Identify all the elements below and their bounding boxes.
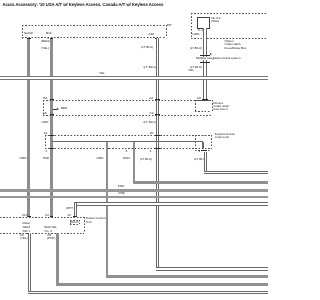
wire color YEL bottom [20, 237, 28, 240]
power box internal text line1 [45, 226, 58, 229]
pin label C9 [197, 97, 201, 100]
relay sub-box inside power box [70, 220, 80, 221]
junction tick on W4 lower [200, 62, 210, 63]
pin tick W2 on D1 [50, 99, 53, 100]
wire W7 bottom elbow horizontal [56, 283, 268, 286]
wire W6 elbow horizontal [133, 181, 269, 184]
wire color LT BLU (left of W3) [140, 158, 152, 161]
pin tick W3 on D1 [155, 99, 159, 100]
pin 4 number [47, 37, 49, 40]
pin tick W2 on D3 [50, 135, 53, 136]
power box internal label under W1 line1 [23, 222, 31, 225]
pin label 20 [150, 132, 153, 135]
wire color ORN (left of W1) [20, 157, 27, 160]
pin label A2 [149, 97, 153, 100]
pin label C6 [20, 234, 24, 237]
ignition switch box (dashed, top-left) [22, 25, 166, 26]
wire color ORN (left of W6) [123, 157, 130, 160]
pin 1 tick under ignition box [27, 38, 31, 39]
pin tick L4 on power box top [73, 216, 77, 217]
pin tick W2 on D2 [50, 114, 53, 115]
wire W6 (x=133.9) [133, 142, 136, 183]
pin tick for LT BLU wire under ignition box [155, 38, 159, 39]
fuse wire color GRN [193, 33, 200, 36]
ignition switch box pin label A29 [149, 33, 155, 36]
pin 1 number [22, 37, 24, 40]
power box internal label under W1 line3 [23, 230, 31, 233]
fuse label line1 [211, 17, 220, 20]
under-dash box text block line1 [225, 40, 234, 43]
power box internal label under W1 line2 [23, 226, 31, 229]
fuse sub-box text line1 [213, 102, 223, 105]
pin tick W2 on power box top [50, 216, 54, 217]
WHT label [66, 207, 73, 210]
wire W1b (below power box, dark hollow) [28, 233, 31, 293]
wire W4b (below relay box, elbow right) [204, 152, 208, 175]
relay sub-box label [70, 221, 79, 224]
wire L4 WHT (hollow dark) horizontal [74, 202, 268, 206]
under-dash box text block line2 [225, 43, 241, 46]
pin label 4 [199, 150, 201, 153]
pin label B4 [43, 97, 47, 100]
power control unit box (dashed) [0, 217, 84, 218]
wire W4a (hollow, from fuse down) [203, 28, 207, 101]
fuse label line2 [211, 20, 219, 23]
pin tick W1 on power box bottom [27, 233, 31, 234]
pin tick W3 on D3 [155, 135, 159, 136]
pin tick W6 on D4 [132, 148, 135, 149]
pin tick W1 on power box top [27, 216, 31, 217]
power box internal text line2 [45, 230, 52, 233]
YEL bus wire (horizontal, full width) [0, 76, 268, 79]
pin label C8 [47, 234, 51, 237]
pin label 13 [67, 214, 70, 217]
pin 4 tick under ignition box [50, 38, 54, 39]
power control unit text line2 [86, 221, 92, 224]
arrowhead on junction tick [210, 53, 212, 55]
wire color PNK (left of W2) [43, 157, 49, 160]
under-hood fuse/relay box (dashed, top-right) [191, 13, 268, 14]
pin label W3 D2 [150, 112, 154, 115]
wire W4b elbow horizontal [204, 171, 269, 175]
PNK label 2 [119, 192, 125, 195]
label (LT BLU) upper right [190, 47, 202, 50]
internal bus line in keyless box [52, 141, 204, 142]
fuse sub-box text line2 [213, 105, 229, 108]
wire W1b bottom elbow horizontal [28, 291, 268, 294]
keyless access control unit box (dashed rect D3/D4) [45, 135, 211, 136]
keyless box side text line1 [215, 133, 235, 136]
wire W3 bottom elbow horizontal [156, 267, 268, 271]
YEL label left [99, 72, 105, 75]
pin tick W2 on D4 [50, 148, 53, 149]
pin tick under relay sub-box [201, 150, 207, 151]
wire W2 (x=52) [50, 39, 53, 217]
title [3, 3, 164, 6]
multiple integrated control system label [196, 57, 240, 60]
arrow label [61, 107, 68, 110]
wire L4 elbow down into power control unit [74, 203, 77, 216]
label (LT BLU) below D2 [144, 121, 156, 124]
pin tick W5 on D4 [106, 148, 109, 149]
pin label 12 [44, 132, 47, 135]
box name label INT [167, 24, 172, 27]
fuse connector label [198, 29, 206, 32]
fuse sub-box on W4 (between D1 and D2) [195, 100, 211, 101]
PNK label 1 [118, 185, 124, 188]
junction tick on W4 [200, 55, 210, 56]
pin label 2 [150, 150, 152, 153]
wire W5 bottom elbow horizontal [106, 275, 268, 278]
ignition switch box internal label mid [46, 32, 52, 35]
wire color GRN (left of W5) [97, 157, 104, 160]
pin label A6 [43, 112, 47, 115]
wire color LT BLU (left of W4b) [194, 158, 206, 161]
pin tick W3 on D4 [155, 148, 159, 149]
fuse element square [197, 17, 210, 29]
wire color label (RED) [41, 40, 50, 43]
wire color label (YEL) [41, 47, 49, 50]
wire color label (LT BLU) on W3 mid [144, 66, 156, 69]
under-dash fuse/relay box (dashed rect D1/D2) [43, 100, 212, 101]
label GRN below D2 [42, 121, 49, 124]
ignition switch box internal label left [24, 32, 33, 35]
horizontal wire L2 [0, 196, 268, 199]
power control unit text line1 [86, 217, 106, 220]
arrow inside fuse box [53, 109, 57, 110]
YEL label right [188, 69, 194, 72]
wire W3 (LT BLU hollow, x=157.5) [156, 38, 160, 267]
pin label 1 [45, 150, 47, 153]
pin label C10 [22, 214, 28, 217]
horizontal wire L1 [0, 189, 268, 192]
wire W1 (thin, x=29) [27, 39, 30, 217]
label (LT BLU) lower [190, 66, 202, 69]
wire color label (LT BLU) left wire [141, 46, 153, 49]
wire color PNK bottom [47, 237, 55, 240]
fuse sub-box text line3 [213, 108, 227, 111]
wire W5 (x=107.7) [106, 142, 109, 277]
pin label 5 [126, 150, 128, 153]
keyless box side text line2 [215, 136, 229, 139]
pin tick W3 on D2 [155, 114, 159, 115]
pin tick W7 on power box bottom [56, 234, 60, 235]
wire W7 (below power box) [56, 233, 59, 285]
pin tick W4 on D1 [202, 99, 208, 100]
relay sub-box on W4 (D box2) [195, 135, 210, 136]
pin label C2 [45, 214, 49, 217]
bus right-end drop to W4 pin [202, 142, 203, 149]
under-dash box text block line3 [225, 47, 247, 50]
